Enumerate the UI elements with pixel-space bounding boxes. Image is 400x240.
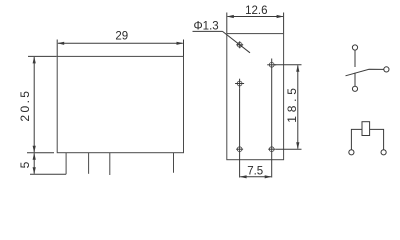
dimension 5 (pin length) [30, 153, 66, 175]
svg-text:18.5: 18.5 [285, 84, 299, 123]
pin 3 [109, 153, 111, 175]
pin 1 [65, 153, 67, 175]
wire coil left lead [351, 129, 362, 149]
extension line right hole column [271, 71, 273, 178]
extension line left hole column [239, 88, 241, 177]
svg-text:20.5: 20.5 [18, 89, 32, 122]
dimension 20.5 (body height) [27, 56, 57, 152]
hole H3 (left, second) [235, 79, 244, 89]
leader Phi 1.3 [193, 31, 251, 52]
svg-text:12.6: 12.6 [245, 5, 267, 17]
pin 4 [173, 153, 175, 173]
terminal NC (bottom circle) [352, 86, 357, 91]
wire NC lead [354, 73, 356, 87]
svg-text:7.5: 7.5 [247, 165, 263, 177]
dimension 12.6 (footprint width) [227, 13, 284, 34]
coil K1 [362, 122, 370, 136]
terminal COM (top circle) [352, 45, 357, 50]
hole H4 (bottom left) [236, 147, 243, 152]
svg-text:5: 5 [18, 161, 32, 168]
hole H1 (top left, with leader) [236, 41, 243, 48]
svg-text:Φ1.3: Φ1.3 [194, 20, 219, 32]
hole H2 (right middle) [267, 59, 276, 72]
terminal coil right [381, 150, 386, 155]
dimension 18.5 (hole row spacing, right) [274, 65, 301, 149]
hole H5 (bottom right) [268, 147, 275, 152]
contact arm (movable) [346, 69, 384, 76]
wire COM lead [354, 50, 356, 67]
pin 2 [88, 153, 90, 174]
svg-text:29: 29 [115, 31, 128, 43]
dimension 7.5 (hole column spacing) [240, 175, 272, 178]
relay body outline (front view) [57, 56, 183, 152]
terminal coil left [349, 150, 354, 155]
terminal NO (right circle) [384, 67, 389, 72]
footprint outline (bottom view) [227, 34, 284, 160]
dimension 29 (body width) [57, 40, 183, 57]
wire coil right lead [370, 129, 384, 149]
